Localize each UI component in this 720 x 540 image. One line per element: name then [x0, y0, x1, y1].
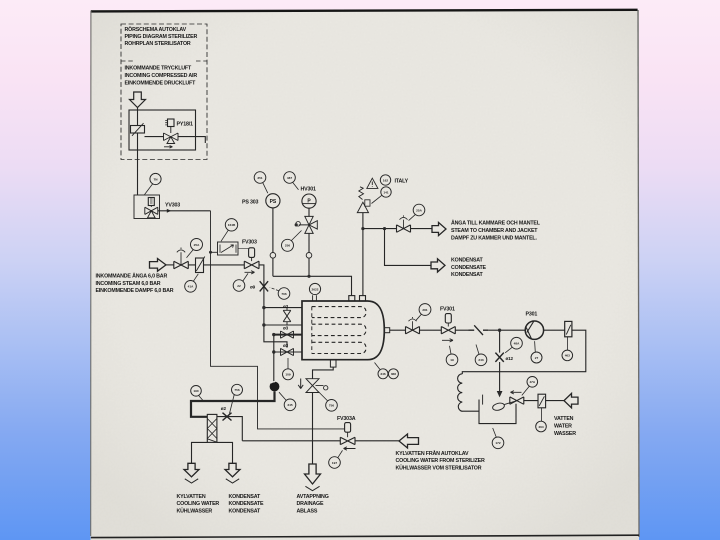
tank top stub [482, 395, 484, 405]
leader 766 [270, 288, 279, 291]
recirculation drop [499, 330, 501, 391]
svg-text:FV301: FV301 [440, 307, 455, 313]
svg-text:RÖRSCHEMA AUTOKLAV: RÖRSCHEMA AUTOKLAV [125, 26, 187, 33]
bubble 351 [254, 172, 266, 184]
hollow arrow condensate out [225, 463, 240, 477]
svg-text:ITALY: ITALY [395, 179, 409, 185]
svg-text:ø3: ø3 [283, 326, 289, 331]
dashed enclosure air supply section [121, 24, 207, 160]
paper sheet [91, 10, 640, 540]
svg-text:25A: 25A [194, 243, 200, 247]
trap bottom branch right [217, 442, 233, 463]
hollow arrow condensate [431, 259, 445, 272]
svg-text:STEAM TO CHAMBER AND JACKET: STEAM TO CHAMBER AND JACKET [451, 228, 538, 234]
solenoid PY18/1 [168, 119, 175, 127]
svg-text:345: 345 [287, 403, 292, 407]
air line into regulator [137, 108, 139, 196]
safety relief valve SV [357, 202, 368, 212]
check valve [469, 325, 489, 335]
svg-text:ROHRPLAN STERILISATOR: ROHRPLAN STERILISATOR [125, 41, 191, 47]
bubble 345 [284, 399, 296, 411]
float ball [492, 402, 505, 412]
valve phi3 no2 [281, 331, 294, 338]
pump P301 [525, 321, 543, 339]
svg-text:47A: 47A [529, 380, 535, 384]
bubble 141 [381, 187, 391, 197]
leader 256 [291, 231, 301, 241]
hollow arrow water inlet [564, 393, 578, 407]
svg-text:756: 756 [234, 388, 239, 392]
vent stem [400, 215, 408, 228]
bubble 25A chamber [413, 204, 425, 216]
svg-text:INKOMMANDE ÅNGA 6,0 BAR: INKOMMANDE ÅNGA 6,0 BAR [96, 272, 168, 279]
return loop to coil [462, 330, 586, 374]
bubble 172 [492, 437, 504, 449]
cooling water text [177, 494, 220, 515]
pump discharge [544, 329, 565, 331]
svg-text:ABLASS: ABLASS [297, 509, 318, 515]
leader 164B [221, 230, 228, 241]
svg-text:DRAINAGE: DRAINAGE [297, 501, 324, 507]
warning triangle [367, 178, 378, 188]
thick suction line [191, 391, 275, 416]
manual valve 25A chamber [397, 225, 411, 232]
svg-text:141: 141 [383, 190, 388, 194]
svg-text:766: 766 [281, 292, 286, 296]
drain valve handle [316, 386, 328, 390]
chamber drain pipe [313, 367, 334, 379]
FV301 actuator [445, 314, 451, 323]
bubble 463 [562, 350, 573, 361]
vessel top nozzle 2 [360, 296, 366, 301]
hollow arrow steam to chamber [432, 222, 446, 235]
float arm [504, 401, 517, 405]
drainage text [297, 494, 329, 515]
pipe regulator to valve [145, 136, 164, 138]
chamber port line 2 [264, 324, 302, 326]
hollow arrow drainage [305, 464, 321, 484]
paper right border [638, 10, 639, 537]
cooling water return line [242, 440, 399, 442]
bubble 19 [446, 354, 458, 366]
arrow under FV303A [344, 447, 356, 450]
heating coil band 1 [312, 307, 366, 318]
bubble 487 [284, 172, 296, 184]
arrow under FV301 [442, 339, 453, 342]
bubble 27 [531, 352, 542, 363]
arrow under FV303 [245, 271, 255, 274]
leader 48A [505, 347, 512, 353]
svg-text:CONDENSATE: CONDENSATE [451, 265, 487, 271]
bubble 164B [225, 219, 237, 231]
svg-text:FV303A: FV303A [337, 416, 356, 422]
safety valve riser [362, 213, 364, 296]
steam to chamber text [451, 220, 541, 242]
water filter [538, 394, 546, 408]
svg-text:COOLING WATER: COOLING WATER [177, 501, 220, 507]
arrowhead into tank [497, 391, 502, 396]
svg-text:PS: PS [270, 199, 277, 205]
valve phi2 [223, 413, 232, 421]
svg-text:ø3: ø3 [283, 343, 289, 348]
svg-text:PIPING DIAGRAM STERILIZER: PIPING DIAGRAM STERILIZER [125, 34, 198, 40]
junction dot riser [361, 227, 364, 230]
svg-text:KONDENSAT: KONDENSAT [229, 494, 261, 500]
spring symbol [359, 187, 364, 200]
steam trap column [207, 414, 217, 442]
svg-text:VATTEN: VATTEN [554, 416, 574, 422]
leader 197 [338, 450, 343, 457]
svg-text:190: 190 [193, 389, 198, 393]
arrow under valve [164, 146, 173, 149]
svg-text:19: 19 [450, 358, 454, 362]
gauge nozzle 2622 [313, 295, 317, 301]
condensate out text [229, 494, 265, 515]
condensate branch [385, 229, 432, 266]
svg-text:368: 368 [391, 372, 396, 376]
cooling water from text [396, 450, 485, 472]
svg-text:YV303: YV303 [165, 203, 180, 209]
svg-text:DAMPF ZU KAMMER UND MANTEL.: DAMPF ZU KAMMER UND MANTEL. [451, 235, 537, 241]
dashed divider [121, 60, 207, 62]
leader 41A [193, 274, 198, 282]
air pipe from YV303 with arrowhead [158, 210, 211, 212]
signal FY303 to FV303 actuator [238, 248, 249, 250]
valve phi3 no3 [281, 348, 294, 355]
reducer phi9 [260, 281, 268, 291]
svg-text:KÜHLWASSER: KÜHLWASSER [177, 508, 213, 515]
valve YV303 3-way [145, 206, 158, 218]
svg-text:INCOMING STEAM 6,0 BAR: INCOMING STEAM 6,0 BAR [96, 281, 161, 287]
svg-text:WATER: WATER [554, 423, 572, 429]
bubble 197 [329, 457, 341, 469]
svg-text:487: 487 [287, 176, 292, 180]
junction dots ports [262, 306, 265, 309]
leader 464 [541, 408, 543, 421]
trap outlet line [217, 417, 242, 441]
svg-text:464: 464 [538, 425, 543, 429]
I/P converter FY303 [218, 242, 239, 255]
heat exchanger coil [458, 374, 463, 411]
bubble 48A [511, 337, 523, 349]
leader 25A chamber [409, 215, 416, 221]
svg-text:KONDENSATE: KONDENSATE [229, 501, 265, 507]
bubble 41A [185, 281, 197, 293]
bubble 25A inlet [191, 239, 203, 251]
svg-text:756: 756 [329, 404, 334, 408]
bubble 22 [233, 280, 245, 292]
bubble 281 [419, 304, 431, 316]
svg-text:KYLVATTEN: KYLVATTEN [177, 494, 206, 500]
drain drop to outlet [312, 393, 314, 465]
float valve 47A [510, 397, 524, 404]
air preparation unit box [129, 110, 196, 150]
svg-text:KONDENSAT: KONDENSAT [451, 272, 483, 278]
svg-text:INKOMMANDE TRYCKLUFT: INKOMMANDE TRYCKLUFT [125, 66, 192, 72]
vessel bottom nozzle [330, 360, 336, 367]
control valve FV303 [244, 261, 259, 269]
manual valve steam inlet [174, 261, 189, 269]
leader 351 [263, 183, 268, 194]
vacuum eductor filled [270, 382, 280, 392]
svg-text:2622: 2622 [312, 287, 319, 291]
valve V-air under solenoid [164, 127, 179, 144]
flow indicator FI [565, 321, 572, 336]
coil left dashed riser [311, 307, 313, 354]
feed tank [479, 400, 516, 424]
instrument bubble N [150, 173, 161, 184]
bubble 109 [283, 369, 294, 380]
vent stem 281 [409, 317, 417, 330]
svg-text:172: 172 [495, 441, 500, 445]
heating coil band 3 [312, 342, 366, 353]
bubble 243 [475, 354, 487, 366]
bubble 766 [278, 288, 290, 300]
leader 141 [372, 195, 382, 203]
svg-text:41A: 41A [188, 285, 194, 289]
svg-text:KONDENSAT: KONDENSAT [229, 509, 261, 515]
leader 190 [199, 396, 203, 401]
pipe valve to box edge [178, 137, 205, 143]
vessel outlet nozzle right [384, 328, 389, 333]
paper top border [91, 10, 638, 12]
hollow arrow cooling water out [184, 463, 199, 477]
bubble 756 left [232, 384, 243, 395]
vessel top nozzle 1 [349, 296, 355, 301]
steam to chamber line [363, 228, 432, 230]
svg-text:243: 243 [478, 358, 483, 362]
leader 243 [476, 345, 479, 355]
svg-text:197: 197 [332, 461, 337, 465]
P drop line to HV301 valve [308, 208, 310, 216]
bubble 190 [191, 386, 202, 397]
svg-text:ÅNGA TILL KAMMARE OCH MANTEL: ÅNGA TILL KAMMARE OCH MANTEL [451, 220, 541, 227]
bubble 162 [380, 175, 390, 185]
chamber port line 1 [264, 307, 302, 309]
bubble 464 [536, 421, 547, 432]
svg-text:ø12: ø12 [506, 356, 514, 361]
junction dot header [307, 275, 310, 278]
svg-text:EINKOMMENDE DAMPF 6,0 BAR: EINKOMMENDE DAMPF 6,0 BAR [96, 288, 174, 294]
bubble 256 [282, 239, 294, 251]
pressure switch bubble PS [266, 194, 280, 208]
vessel id bubbles 346 368 [378, 369, 388, 379]
HV301 drop with flange [308, 233, 310, 276]
svg-text:INCOMING COMPRESSED AIR: INCOMING COMPRESSED AIR [125, 73, 198, 79]
svg-text:COOLING WATER FROM STERILIZER: COOLING WATER FROM STERILIZER [396, 458, 485, 464]
svg-text:27: 27 [535, 356, 539, 360]
hollow arrow cooling water from sterilizer [399, 434, 419, 448]
hand valve HV301 4-way [299, 216, 318, 233]
svg-text:164B: 164B [228, 223, 236, 227]
svg-text:WASSER: WASSER [554, 431, 576, 437]
pipe inlet [166, 264, 174, 266]
water inlet pipe [524, 400, 564, 402]
pipe strainer to FV303 [188, 264, 244, 266]
svg-text:109: 109 [285, 373, 290, 377]
svg-text:KONDENSAT: KONDENSAT [451, 258, 483, 264]
svg-text:346: 346 [380, 372, 385, 376]
leader 27 [534, 341, 537, 352]
vent stem on valve [177, 248, 185, 265]
valve phi3 no1 vertical [283, 308, 291, 325]
svg-text:P301: P301 [526, 312, 538, 318]
air signal drop line to FY303 and FV303A [211, 211, 345, 429]
leader 345 [279, 392, 286, 400]
regulator R1 [131, 126, 145, 134]
svg-text:22: 22 [237, 284, 241, 288]
regulator arrow [132, 123, 144, 136]
junction dot air/FY303 [209, 251, 212, 254]
svg-text:25A: 25A [416, 208, 422, 212]
drain valve globe [306, 379, 319, 393]
solenoid valve box YV303 [134, 195, 160, 219]
bubble 2622 [309, 283, 320, 294]
svg-text:AVTAPPNING: AVTAPPNING [297, 494, 329, 500]
FV303 actuator [249, 248, 255, 258]
bubble 47A [527, 377, 538, 388]
chamber port line 3 thick [274, 334, 302, 336]
svg-text:281: 281 [422, 308, 427, 312]
svg-text:HV301: HV301 [301, 187, 317, 193]
leader 487 [293, 182, 299, 189]
discharge line [390, 329, 469, 331]
svg-text:256: 256 [285, 244, 290, 248]
control valve FV303A [340, 437, 355, 444]
autoclave vessel [302, 301, 384, 360]
pipe FV303 to drop [259, 265, 287, 348]
svg-text:351: 351 [257, 176, 262, 180]
junction dot condensate tap [383, 227, 386, 230]
incoming compressed air text [125, 66, 198, 87]
solenoid coil YV303 [148, 198, 154, 206]
svg-text:PY18/1: PY18/1 [177, 122, 194, 128]
svg-text:ø2: ø2 [221, 406, 227, 411]
coil to tank [462, 410, 479, 412]
heating coil band 2 [312, 324, 366, 335]
down arrow glyph [298, 379, 303, 389]
svg-text:162: 162 [383, 178, 388, 182]
trap bottom branch left [192, 442, 208, 463]
svg-text:463: 463 [565, 354, 570, 358]
svg-text:ø3: ø3 [283, 304, 289, 309]
leader N [145, 184, 153, 195]
port manifold drop [273, 335, 275, 382]
PS drop line with flange [272, 208, 274, 276]
svg-text:EINKOMMENDE DRUCKLUFT: EINKOMMENDE DRUCKLUFT [125, 80, 197, 86]
arrow above float valve [511, 391, 522, 394]
leader 172 [493, 428, 497, 437]
chamber feed header [273, 276, 352, 295]
hollow down arrow air inlet [130, 92, 146, 108]
leader 756 left [230, 395, 235, 414]
control valve FV301 [441, 327, 455, 334]
water text [554, 416, 576, 437]
leader 109 [287, 358, 289, 369]
leader 25A inlet [187, 250, 194, 258]
manual valve 281 [406, 327, 420, 334]
strainer F1 [196, 258, 204, 273]
title text block [125, 26, 198, 47]
leader vessel id [375, 363, 380, 370]
chamber port line 4 [274, 351, 302, 353]
svg-text:ø9: ø9 [250, 285, 256, 290]
steam inlet text [96, 272, 174, 294]
paper left border [90, 11, 92, 536]
leader 463 [567, 337, 569, 350]
svg-text:KYLVATTEN FRÅN AUTOKLAV: KYLVATTEN FRÅN AUTOKLAV [396, 450, 470, 457]
leader 22 [243, 273, 248, 281]
svg-text:KÜHLWASSER VOM STERILISATOR: KÜHLWASSER VOM STERILISATOR [396, 465, 482, 472]
hollow arrow incoming steam [150, 259, 167, 272]
paper bottom edge line [91, 535, 639, 537]
condensate text [451, 258, 487, 278]
leader 47A [522, 386, 530, 395]
svg-text:48A: 48A [514, 342, 520, 346]
leader 756 drain [318, 392, 327, 401]
leader 281 [416, 314, 422, 321]
gauge bubble P [302, 194, 316, 208]
line to pump [488, 329, 525, 331]
svg-text:PS 303: PS 303 [242, 200, 259, 206]
FV303A actuator [345, 423, 351, 433]
reducer phi12 [495, 353, 503, 362]
leader 19 [450, 346, 452, 354]
junction dot recirculation [498, 329, 501, 332]
bubble 756 drain [326, 400, 338, 412]
stub to FY303 box [211, 251, 218, 253]
svg-text:FV303: FV303 [242, 240, 257, 246]
